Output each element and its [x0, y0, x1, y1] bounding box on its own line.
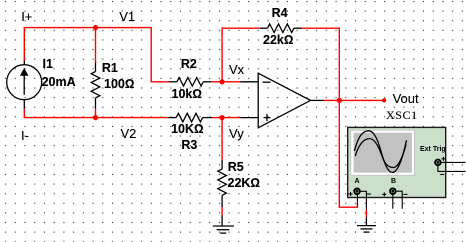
- value 100ohm: [104, 77, 134, 91]
- scope waveform: [355, 131, 407, 173]
- junction node Vx: [220, 79, 225, 84]
- wire op-amp output to Vout terminal: [324, 99, 384, 101]
- wire Vy down to R5: [221, 118, 223, 160]
- label I1: [43, 57, 53, 71]
- op-amp U1: [240, 73, 324, 128]
- wire Vx to op-amp minus input: [222, 81, 240, 83]
- node label Vx: [229, 62, 244, 77]
- value 10Kohm (R3): [171, 122, 204, 136]
- junction node Vout: [337, 98, 342, 103]
- value 10kohm: [172, 87, 202, 101]
- resistor R3: [168, 113, 212, 122]
- scope terminal B: [382, 188, 407, 208]
- wire R4 left / Vx vertical: [222, 28, 260, 82]
- wire R1 bottom segment: [95, 109, 97, 118]
- wire Vout down to scope A+: [339, 100, 357, 207]
- value 20mA: [42, 75, 76, 89]
- label R3: [181, 138, 197, 152]
- resistor R1: [91, 63, 100, 109]
- label R2: [181, 57, 197, 71]
- wire scope A- to ground: [365, 210, 367, 218]
- junction node Vy: [220, 115, 225, 120]
- resistor R4: [260, 24, 302, 33]
- label Ext Trig: [420, 146, 446, 153]
- node Vout terminal dot: [382, 98, 386, 102]
- label A: [355, 178, 360, 185]
- label XSC1: [386, 108, 418, 123]
- label R4: [272, 6, 288, 20]
- scope terminal A: [349, 189, 371, 210]
- wire R3 right to Vy: [212, 117, 222, 119]
- node label I+: [21, 9, 32, 24]
- wire R1 top segment: [95, 28, 97, 63]
- node label V1: [119, 9, 135, 24]
- resistor R2: [169, 78, 211, 87]
- node label Vout: [393, 91, 419, 106]
- label R1: [102, 61, 118, 75]
- wire R5 bottom to ground: [221, 207, 223, 215]
- ground (R5): [213, 215, 234, 233]
- junction node V1/R1: [93, 25, 98, 30]
- label B: [391, 178, 396, 185]
- wire R2 right to Vx: [211, 81, 222, 83]
- wire Vy to op-amp plus input: [222, 117, 240, 119]
- wire R4 right down to output: [302, 28, 339, 100]
- node label I-: [21, 128, 29, 143]
- wire net I-/V2 bottom: [24, 109, 168, 118]
- junction node I-/R1: [93, 115, 98, 120]
- oscilloscope XSC1 body: [348, 127, 446, 197]
- node label Vy: [229, 126, 244, 141]
- node label V2: [121, 126, 137, 141]
- value 22kohm (R4): [263, 33, 293, 47]
- ground (scope A-): [357, 217, 376, 232]
- current source I1: [7, 61, 42, 109]
- label R5: [228, 160, 244, 174]
- resistor R5: [218, 160, 227, 207]
- value 22Kohm (R5): [228, 176, 261, 190]
- scope terminal Ext Trig: [435, 157, 465, 175]
- wire net V1 top: [24, 28, 168, 82]
